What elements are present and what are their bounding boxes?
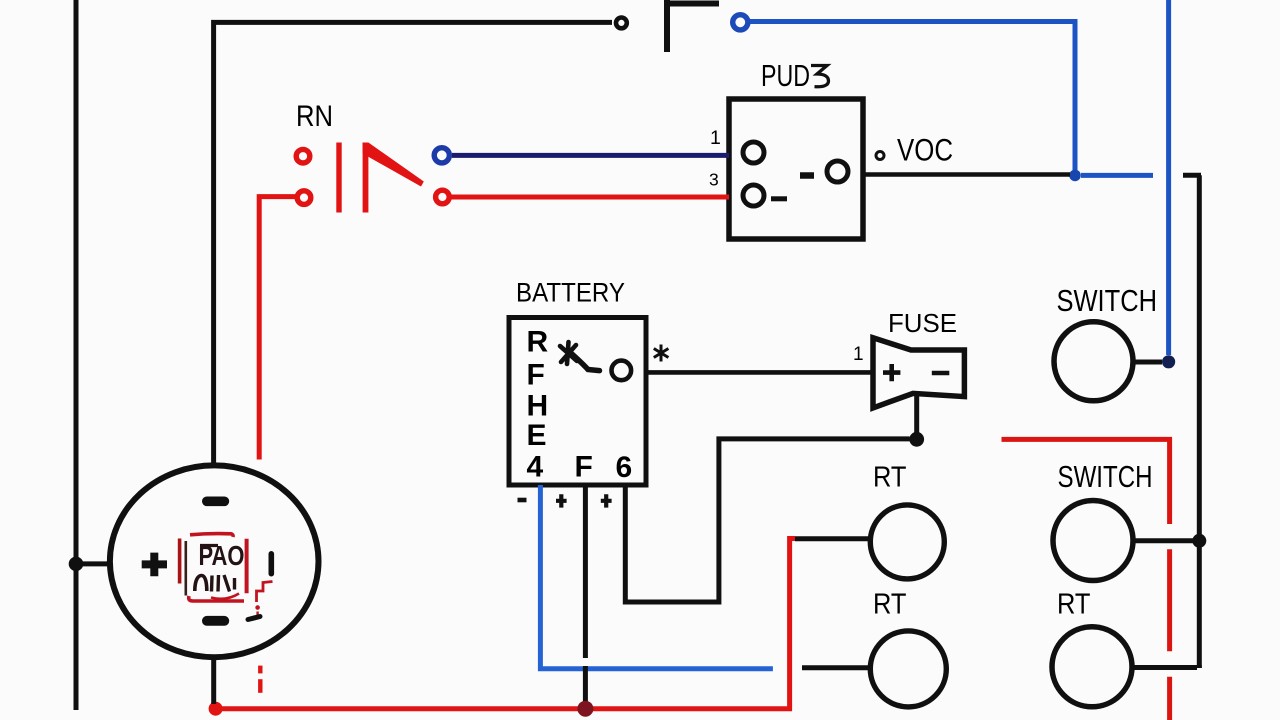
alternator plus left <box>142 553 167 577</box>
RT bottom-left circle <box>870 631 946 707</box>
glitch bracket top center <box>664 0 719 52</box>
red dash below alternator 1 <box>258 666 262 674</box>
svg-text:SWITCH: SWITCH <box>1058 460 1153 494</box>
wire: stub from left bus to alternator + terminal <box>76 561 112 566</box>
switch top circle <box>1054 322 1133 401</box>
battery pin sign minus <box>518 498 527 503</box>
svg-text:F: F <box>575 451 593 484</box>
wire: switch bottom to right bus <box>1134 538 1196 543</box>
dash contact lower U1 <box>771 196 787 201</box>
wire: red right riser segment 3 <box>1167 677 1172 720</box>
wire: battery output to fuse <box>646 370 871 375</box>
alternator glitch red bar far left <box>178 539 182 584</box>
wire: stub to RT bottom-left <box>802 665 869 670</box>
wire: red bottom run from alternator to RT riser <box>216 539 795 709</box>
node dot red at alternator bottom <box>209 702 223 716</box>
wire: alternator top to upper terminal (corner) <box>214 22 612 466</box>
red dash below alternator 2 <box>258 679 262 693</box>
node dot under fuse <box>909 432 924 447</box>
node dot at switch feed <box>1162 355 1175 368</box>
svg-text:RN: RN <box>296 100 333 133</box>
svg-text:3: 3 <box>709 170 719 190</box>
wire: RT top to red riser <box>795 536 870 541</box>
relay common terminal (red circle) <box>436 190 450 204</box>
wire: blue top run to right and down <box>750 22 1075 173</box>
RT bottom-right circle <box>1052 627 1132 707</box>
battery internal switch elbow <box>572 354 600 371</box>
junction dot on left bus <box>69 557 84 572</box>
svg-text:BATTERY: BATTERY <box>516 277 625 307</box>
wire: battery B pin to fuse node <box>625 439 909 602</box>
alternator glitch red elbow <box>257 582 273 603</box>
svg-text:F: F <box>527 359 545 392</box>
svg-text:R: R <box>527 326 549 359</box>
svg-text:FUSE: FUSE <box>888 308 957 338</box>
wire: fuse bottom stub <box>914 396 919 433</box>
alternator glitch red underline curve <box>211 594 239 599</box>
svg-text:4: 4 <box>527 451 544 484</box>
wire: battery F pin down (upper part) <box>583 485 588 658</box>
wire: red from relay common to U1 pin3 <box>452 195 730 200</box>
wire: blue from VOC node to right <box>1081 173 1153 178</box>
blue terminal circle top <box>733 15 748 30</box>
wire: battery blue pin 4 down and right <box>540 485 773 669</box>
module box U1 (PUD) <box>729 99 863 239</box>
battery internal switch circle <box>612 361 632 381</box>
battery box <box>509 318 646 486</box>
alternator body circle <box>110 465 319 657</box>
node dot dark red at battery F junction <box>577 701 593 717</box>
asterisk glitch near battery output <box>654 345 669 362</box>
wire: alternator bottom stub <box>211 655 216 704</box>
alternator glitch box left edge dark <box>185 541 188 596</box>
glitch glyph after PUD <box>811 66 829 87</box>
node dot on right bus <box>1192 534 1206 548</box>
svg-text:H: H <box>527 390 549 423</box>
alternator minus bottom <box>202 616 229 626</box>
wire: switch top to blue node <box>1133 360 1162 365</box>
alternator glitch black dash <box>248 617 260 620</box>
alternator glitch red box bottom edge <box>189 596 244 601</box>
fuse minus sign <box>932 371 950 376</box>
relay contact bar right <box>363 143 369 213</box>
RT top circle <box>870 505 944 579</box>
svg-text:VOC: VOC <box>897 132 953 168</box>
relay NO terminal (blue circle) <box>434 148 449 163</box>
relay coil terminal upper (red open circle) <box>296 149 310 163</box>
right bracket corner <box>1183 175 1201 668</box>
pin circle inside U1 (bottom-left) <box>743 185 764 206</box>
alternator glitch squiggle row <box>195 576 207 592</box>
svg-text:RT: RT <box>873 462 907 494</box>
pin circle inside U1 (right) <box>827 161 848 182</box>
fuse plus sign <box>883 364 900 381</box>
svg-text:RT: RT <box>1057 589 1091 621</box>
degree glitch before VOC <box>876 152 884 160</box>
alternator minus top <box>202 497 229 507</box>
wire: battery F pin down (lower part) <box>583 666 588 706</box>
wire: VOC output black <box>865 172 1070 177</box>
svg-text:RT: RT <box>873 589 907 621</box>
wire: red right horizontal feed <box>1002 439 1170 524</box>
battery internal switch blob <box>560 342 577 364</box>
battery pin sign plus 1 <box>556 494 567 507</box>
relay coil terminal lower (red open circle) <box>297 191 311 205</box>
alternator glitch red box top edge <box>190 534 233 537</box>
svg-text:PUD: PUD <box>761 58 810 93</box>
svg-text:6: 6 <box>616 451 633 484</box>
svg-text:E: E <box>527 419 547 452</box>
wire: RT bottom-right to right bus <box>1132 665 1199 668</box>
fuse body <box>873 338 964 408</box>
svg-text:1: 1 <box>853 344 864 365</box>
svg-text:1: 1 <box>710 127 721 149</box>
alternator glitch black bar <box>269 551 275 577</box>
switch bottom circle <box>1053 501 1133 581</box>
alternator glitch overline <box>200 544 218 547</box>
alternator glitch red tick <box>256 612 258 616</box>
dash contact mid U1 <box>800 172 814 179</box>
pin circle inside U1 (top-left) <box>743 142 764 163</box>
relay armature wedge and diagonal <box>363 143 424 187</box>
relay contact bar left <box>336 143 341 213</box>
battery pin sign plus 2 <box>601 494 612 507</box>
wire: left vertical bus <box>74 0 79 710</box>
alternator glitch red dot <box>255 605 260 610</box>
svg-text:SWITCH: SWITCH <box>1057 284 1158 318</box>
wire: navy from relay NO contact to U1 pin1 <box>452 153 729 158</box>
junction dot blue at VOC node <box>1069 170 1081 182</box>
wire: red right riser segment 2 <box>1167 549 1172 651</box>
alternator glitch red right vertical <box>245 539 249 594</box>
wire: blue right vertical drop to switch node <box>1166 0 1171 355</box>
wire: red from relay coil to left and down <box>259 197 296 460</box>
terminal: small open circle end of top wire <box>616 18 627 29</box>
